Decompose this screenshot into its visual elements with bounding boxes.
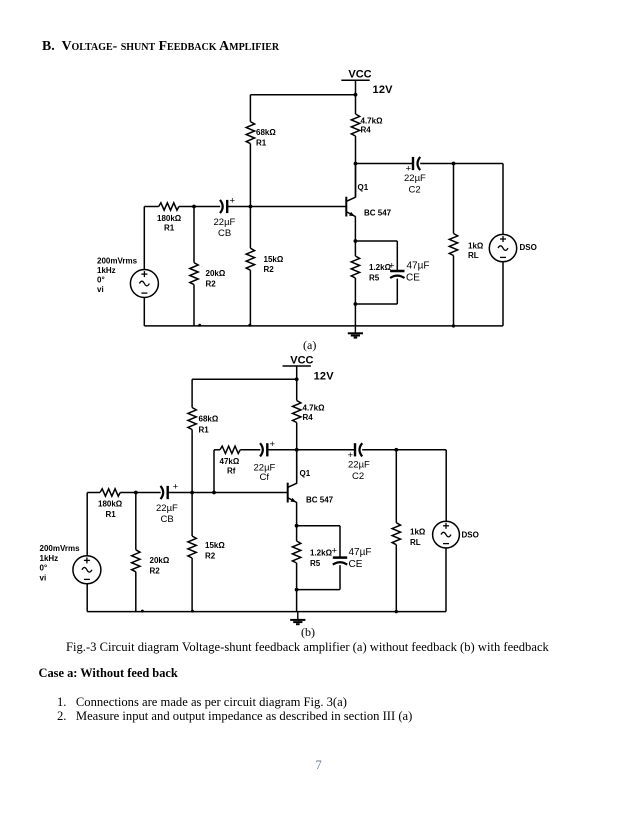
svg-text:47µF: 47µF <box>349 547 372 558</box>
svg-text:RL: RL <box>468 251 479 260</box>
svg-text:1kHz: 1kHz <box>97 266 116 275</box>
svg-text:1kΩ: 1kΩ <box>410 528 426 537</box>
svg-text:R1: R1 <box>199 425 210 434</box>
svg-text:22µF: 22µF <box>214 217 236 228</box>
svg-text:47kΩ: 47kΩ <box>220 457 240 466</box>
svg-text:Q1: Q1 <box>300 469 311 478</box>
svg-text:C2: C2 <box>352 471 364 482</box>
svg-text:R1: R1 <box>106 510 117 519</box>
svg-text:CE: CE <box>349 559 363 570</box>
svg-text:vi: vi <box>97 285 104 294</box>
svg-text:+: + <box>389 261 395 272</box>
svg-text:22µF: 22µF <box>156 503 178 514</box>
svg-text:20kΩ: 20kΩ <box>206 269 226 278</box>
svg-text:4.7kΩ: 4.7kΩ <box>303 404 326 413</box>
svg-text:0°: 0° <box>97 276 105 285</box>
svg-text:CE: CE <box>406 273 420 284</box>
svg-text:R2: R2 <box>264 265 275 274</box>
svg-text:12V: 12V <box>314 371 335 383</box>
svg-text:R5: R5 <box>310 559 321 568</box>
svg-text:DSO: DSO <box>520 243 537 252</box>
svg-text:R2: R2 <box>150 567 161 576</box>
svg-text:12V: 12V <box>373 84 394 96</box>
svg-text:68kΩ: 68kΩ <box>256 128 276 137</box>
svg-text:200mVrms: 200mVrms <box>40 544 81 553</box>
svg-text:68kΩ: 68kΩ <box>199 415 219 424</box>
svg-text:4.7kΩ: 4.7kΩ <box>361 117 384 126</box>
svg-text:180kΩ: 180kΩ <box>98 500 123 509</box>
svg-text:R5: R5 <box>369 274 380 283</box>
svg-text:R1: R1 <box>164 224 175 233</box>
svg-text:DSO: DSO <box>462 531 479 540</box>
svg-text:0°: 0° <box>40 564 48 573</box>
svg-text:Cf: Cf <box>260 472 270 483</box>
svg-text:RL: RL <box>410 538 421 547</box>
svg-text:22µF: 22µF <box>404 173 426 184</box>
svg-text:vi: vi <box>40 574 47 583</box>
svg-text:15kΩ: 15kΩ <box>264 255 284 264</box>
svg-text:R4: R4 <box>361 126 372 135</box>
svg-text:CB: CB <box>218 228 231 239</box>
svg-text:20kΩ: 20kΩ <box>150 556 170 565</box>
svg-text:BC 547: BC 547 <box>306 496 334 505</box>
svg-text:+: + <box>332 546 338 557</box>
svg-text:+: + <box>173 482 179 493</box>
svg-text:+: + <box>270 439 276 450</box>
svg-text:15kΩ: 15kΩ <box>205 541 225 550</box>
svg-text:1kΩ: 1kΩ <box>468 242 484 251</box>
svg-text:R4: R4 <box>303 413 314 422</box>
svg-text:VCC: VCC <box>290 354 313 366</box>
svg-text:R2: R2 <box>205 552 216 561</box>
svg-text:C2: C2 <box>409 185 421 196</box>
svg-text:VCC: VCC <box>348 69 371 81</box>
svg-text:22µF: 22µF <box>348 460 370 471</box>
svg-text:1.2kΩ: 1.2kΩ <box>310 549 333 558</box>
svg-text:R1: R1 <box>256 139 267 148</box>
svg-text:47µF: 47µF <box>407 261 430 272</box>
svg-text:Rf: Rf <box>227 466 236 475</box>
svg-text:R2: R2 <box>206 279 217 288</box>
svg-text:200mVrms: 200mVrms <box>97 257 138 266</box>
svg-text:CB: CB <box>161 514 174 525</box>
svg-text:Q1: Q1 <box>358 183 369 192</box>
svg-text:+: + <box>230 196 236 207</box>
svg-text:1kHz: 1kHz <box>40 554 59 563</box>
svg-text:180kΩ: 180kΩ <box>157 214 182 223</box>
svg-text:BC 547: BC 547 <box>364 209 392 218</box>
